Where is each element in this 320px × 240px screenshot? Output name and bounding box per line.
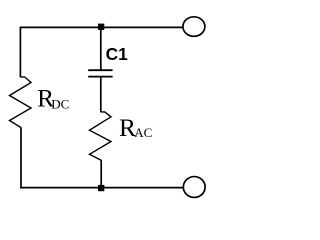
terminal top right <box>183 17 205 37</box>
svg-text:DC: DC <box>51 96 69 111</box>
junction bottom <box>98 185 104 191</box>
resistor RAC <box>90 112 112 160</box>
label RAC <box>119 114 152 142</box>
svg-text:C1: C1 <box>106 44 128 64</box>
svg-text:AC: AC <box>134 125 152 140</box>
wire RAC bottom lead <box>100 160 102 188</box>
wire capacitor to RAC <box>100 77 102 113</box>
wire bottom horizontal <box>20 187 183 189</box>
resistor RDC <box>10 77 32 128</box>
capacitor C1 <box>88 70 112 76</box>
wire left vertical lower <box>20 127 22 188</box>
junction top <box>98 24 104 30</box>
wire top horizontal <box>20 26 184 28</box>
wire left vertical upper <box>19 27 21 78</box>
terminal bottom right <box>183 177 205 198</box>
label RDC <box>37 85 69 113</box>
wire capacitor top lead <box>100 27 102 70</box>
